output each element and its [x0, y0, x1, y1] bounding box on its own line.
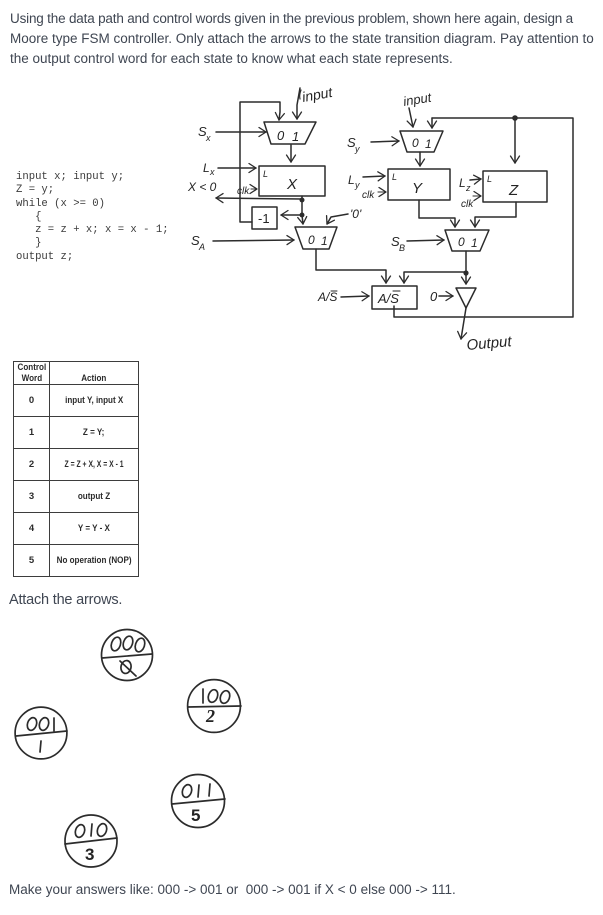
mux MB (0 1) — [445, 230, 489, 251]
state 001 circle — [15, 707, 67, 759]
svg-text:1: 1 — [321, 234, 328, 248]
wire: feedback down into register Z — [514, 118, 516, 163]
wire: X output into decrementer — [281, 200, 302, 215]
wire: adder feedback from mux MY branch down — [431, 118, 433, 128]
label: input (left) — [301, 84, 335, 105]
svg-text:clk: clk — [362, 190, 375, 201]
label: stroke before input word — [300, 90, 301, 99]
node: MB output junction — [463, 270, 468, 275]
svg-text:x: x — [205, 133, 211, 143]
register X — [259, 166, 325, 196]
label: SA — [191, 233, 205, 252]
label: '0' constant — [350, 207, 362, 221]
svg-text:2: 2 — [205, 706, 215, 726]
wire: input into mux MY input 0 — [409, 108, 413, 127]
label: X < 0 — [187, 180, 217, 194]
state 000 circle — [102, 630, 153, 681]
pin: clock wedge register X — [251, 188, 257, 190]
svg-text:x: x — [209, 167, 215, 177]
mux MX (0 1) — [264, 122, 316, 144]
wire: A/S select into adder — [341, 296, 369, 297]
label: clk (register Y) — [362, 190, 375, 201]
svg-text:L: L — [459, 176, 466, 190]
wire: register Y output into mux MB input 0 — [419, 200, 455, 227]
state 100 circle — [188, 680, 241, 733]
label: clk (register Z) — [461, 199, 474, 210]
svg-text:A/S: A/S — [377, 291, 399, 306]
wire: MB output into adder input B — [404, 272, 466, 283]
svg-text:3: 3 — [85, 845, 94, 864]
svg-text:1: 1 — [471, 236, 478, 250]
svg-text:input: input — [402, 90, 434, 109]
svg-text:X < 0: X < 0 — [187, 180, 217, 194]
wire: 0 enable into tristate buffer — [439, 295, 453, 297]
svg-text:Output: Output — [466, 333, 513, 354]
wire: Ly into register Y — [363, 176, 385, 177]
svg-text:A/S: A/S — [317, 290, 337, 304]
svg-text:0: 0 — [430, 289, 438, 304]
svg-text:'0': '0' — [350, 207, 362, 221]
state 011 circle — [172, 775, 226, 828]
svg-text:L: L — [487, 174, 492, 184]
label: clk (register X) — [237, 186, 250, 197]
pin: clock wedge register Z — [473, 195, 481, 197]
wire: mux MY output into register Y — [419, 152, 421, 166]
node: X output junction lower — [300, 213, 305, 218]
svg-text:0: 0 — [308, 233, 315, 247]
svg-text:clk: clk — [237, 186, 250, 197]
wire: adder output feedback loop (right side) with branch to register Z — [394, 118, 573, 317]
wire: X output into mux MA input 0 — [302, 215, 303, 224]
mux MA (0 1) — [295, 227, 337, 249]
node: feedback junction above Z — [512, 115, 518, 121]
svg-text:5: 5 — [191, 806, 200, 825]
svg-text:y: y — [354, 180, 360, 190]
svg-text:y: y — [354, 144, 360, 154]
svg-text:X: X — [286, 176, 298, 193]
label: Sx — [198, 124, 211, 143]
wire: SB select into mux MB — [407, 240, 444, 241]
svg-text:Y: Y — [412, 180, 423, 197]
wire: SA select into mux MA — [213, 240, 294, 241]
label: Sy — [347, 135, 360, 154]
svg-text:0: 0 — [412, 136, 419, 150]
node: X output junction upper — [300, 198, 305, 203]
mux MY (0 1) — [400, 131, 443, 152]
register Z — [483, 171, 547, 202]
svg-text:L: L — [392, 172, 397, 182]
wire: '0' constant into mux MA input 1 — [327, 214, 348, 224]
svg-text:Z: Z — [508, 182, 519, 199]
svg-text:1: 1 — [292, 129, 299, 144]
svg-text:L: L — [203, 161, 210, 175]
label: input (right) — [402, 90, 434, 109]
svg-text:L: L — [348, 173, 355, 187]
svg-text:z: z — [465, 183, 471, 193]
wire: mux MB output down — [465, 251, 467, 273]
label: A/S select — [317, 290, 337, 304]
svg-text:0: 0 — [277, 128, 285, 143]
wire: Sy select into mux MY — [371, 141, 399, 142]
label: Ly — [348, 173, 360, 190]
wire: register Z output into mux MB input 1 — [475, 202, 516, 227]
svg-text:-1: -1 — [258, 211, 270, 226]
label: 0 (tristate enable) — [430, 289, 438, 304]
decrementer -1 — [252, 207, 277, 229]
wire: Lx into register X — [218, 167, 256, 169]
svg-text:L: L — [263, 169, 268, 179]
svg-text:A: A — [198, 242, 205, 252]
svg-text:input: input — [301, 84, 335, 105]
svg-text:0: 0 — [458, 235, 465, 249]
wire: tristate output — [461, 308, 466, 339]
wire: mux MA output to adder — [316, 249, 386, 283]
adder A/S — [372, 286, 417, 309]
wire: Lz into register Z — [470, 179, 481, 180]
label: SB — [391, 234, 405, 253]
tristate buffer — [456, 288, 476, 308]
wire: X feedback loop from -1 box up and into mux MX input 0 — [240, 102, 280, 222]
label: Lx — [203, 161, 215, 177]
state 010 circle — [65, 815, 117, 867]
svg-text:B: B — [399, 243, 405, 253]
wire: Sx select into mux MX — [216, 131, 266, 133]
register Y — [388, 169, 450, 200]
wire: X<0 comparison output to the left — [216, 198, 302, 199]
label: Output — [466, 333, 513, 354]
label: Lz — [459, 176, 471, 193]
wire: X register output down — [301, 196, 303, 200]
svg-text:clk: clk — [461, 199, 474, 210]
wire: MB junction into tristate buffer — [465, 273, 467, 284]
pin: clock wedge register Y — [378, 191, 386, 193]
wire: input into mux MX input 1 — [297, 88, 300, 119]
svg-text:1: 1 — [425, 137, 432, 151]
wire: mux MX output to register X — [290, 145, 292, 162]
